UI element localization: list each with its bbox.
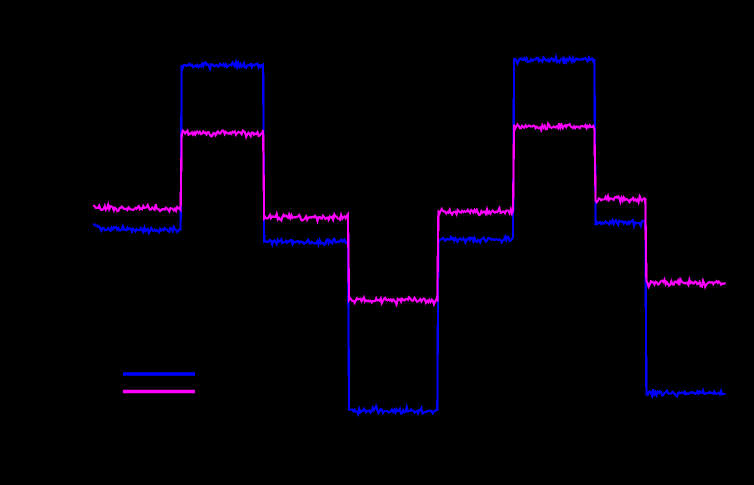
legend magenta line sample [123,390,195,394]
blue trace (noisy square wave) [94,57,726,414]
legend blue line sample [123,372,195,376]
magenta trace (noisy square wave) [94,123,726,304]
